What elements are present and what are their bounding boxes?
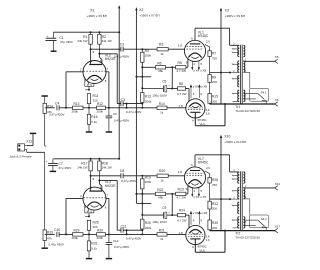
svg-text:Jack 6,3 Female: Jack 6,3 Female	[10, 154, 32, 158]
svg-text:R8: R8	[179, 82, 183, 86]
svg-text:S4.1: S4.1	[261, 90, 267, 94]
ground	[51, 50, 57, 52]
svg-text:R26: R26	[145, 221, 151, 225]
svg-text:24k 1W: 24k 1W	[102, 166, 112, 170]
svg-text:68k: 68k	[158, 69, 163, 73]
wire jack sleeve to ground	[27, 145, 33, 147]
wire jack tip	[25, 148, 27, 150]
svg-text:+390V к X10 БП: +390V к X10 БП	[224, 140, 246, 144]
svg-text:ТН-60-127/220-50: ТН-60-127/220-50	[235, 235, 260, 239]
svg-text:47k: 47k	[47, 237, 52, 241]
capacitor C7	[52, 159, 54, 163]
svg-text:68k: 68k	[158, 195, 163, 199]
node X1 bus	[118, 7, 120, 159]
ground	[42, 247, 48, 249]
svg-text:R24: R24	[179, 208, 185, 212]
svg-text:1k: 1k	[160, 178, 164, 182]
svg-text:47μ 450V: 47μ 450V	[58, 166, 71, 170]
svg-text:6Н23П: 6Н23П	[105, 57, 116, 61]
svg-text:X11: X11	[26, 139, 32, 143]
svg-text:R7: R7	[212, 51, 216, 55]
svg-text:+: +	[47, 34, 49, 38]
svg-text:C12: C12	[113, 239, 119, 243]
svg-text:200k: 200k	[72, 109, 79, 113]
svg-text:X2: X2	[139, 8, 143, 12]
svg-text:к X8: к X8	[201, 85, 207, 89]
svg-text:A: A	[191, 37, 193, 41]
svg-text:R13: R13	[145, 95, 151, 99]
svg-text:1,8: 1,8	[178, 44, 183, 48]
svg-text:C2: C2	[120, 42, 124, 46]
svg-text:R16: R16	[91, 115, 97, 119]
capacitor C10	[45, 233, 55, 235]
channel 1 graphics	[53, 28, 277, 132]
svg-text:6Н23П: 6Н23П	[105, 184, 116, 188]
svg-text:A: A	[192, 245, 194, 249]
svg-text:1k: 1k	[160, 237, 164, 241]
svg-text:C10: C10	[54, 228, 60, 232]
svg-text:R15: R15	[212, 94, 218, 98]
svg-text:C4: C4	[55, 101, 59, 105]
svg-text:3,6: 3,6	[206, 112, 210, 116]
svg-text:1,8: 1,8	[178, 170, 183, 174]
svg-text:R13: R13	[74, 102, 80, 106]
svg-text:к X5: к X5	[200, 195, 206, 199]
svg-text:R35: R35	[212, 221, 218, 225]
svg-text:1,8: 1,8	[178, 104, 183, 108]
svg-text:24k 1W: 24k 1W	[77, 39, 87, 43]
svg-text:0,47μ 450V: 0,47μ 450V	[114, 245, 129, 249]
svg-text:200k: 200k	[145, 226, 152, 230]
ground	[50, 170, 56, 172]
svg-text:X17: X17	[275, 225, 281, 229]
svg-text:VL3: VL3	[199, 122, 205, 126]
svg-text:4,7 2W: 4,7 2W	[177, 195, 187, 199]
svg-text:100μ 100V: 100μ 100V	[152, 94, 167, 98]
svg-text:750: 750	[212, 183, 217, 187]
svg-text:X10: X10	[224, 135, 230, 139]
svg-text:R20: R20	[159, 169, 165, 173]
svg-text:0,47μ 450V: 0,47μ 450V	[121, 179, 136, 183]
svg-text:4,7 2W: 4,7 2W	[177, 218, 187, 222]
svg-text:R9: R9	[212, 75, 216, 79]
svg-text:200: 200	[212, 207, 217, 211]
svg-text:750: 750	[212, 56, 217, 60]
svg-text:3,6: 3,6	[206, 238, 210, 242]
svg-text:A: A	[191, 163, 193, 167]
node X2 bus	[135, 9, 137, 204]
svg-text:+350V к X7 БП: +350V к X7 БП	[139, 13, 159, 17]
svg-text:R5: R5	[178, 61, 182, 65]
svg-text:R12: R12	[97, 102, 103, 106]
svg-text:R25: R25	[93, 221, 99, 225]
svg-text:200k: 200k	[145, 180, 152, 184]
svg-text:к X5: к X5	[200, 68, 206, 72]
svg-text:X12: X12	[275, 182, 281, 186]
svg-text:X1: X1	[90, 9, 94, 13]
svg-text:24k 1W: 24k 1W	[102, 39, 112, 43]
channel 1 labels	[72, 30, 279, 126]
svg-text:R19: R19	[145, 176, 151, 180]
svg-text:к X4: к X4	[193, 195, 199, 199]
svg-text:R32: R32	[212, 202, 218, 206]
svg-text:2,6: 2,6	[206, 39, 210, 43]
svg-text:к X6: к X6	[193, 85, 199, 89]
svg-text:C8: C8	[120, 169, 124, 173]
svg-text:S4.2: S4.2	[261, 217, 267, 221]
svg-text:ТН-60-127/220-50: ТН-60-127/220-50	[235, 109, 260, 113]
node X10 bus	[220, 136, 222, 231]
svg-text:R21: R21	[159, 229, 165, 233]
svg-text:R28: R28	[212, 178, 218, 182]
svg-text:R22: R22	[157, 188, 163, 192]
svg-text:+390V к X9 БП: +390V к X9 БП	[87, 14, 107, 18]
svg-text:к X4: к X4	[193, 68, 199, 72]
svg-text:R3: R3	[159, 42, 163, 46]
svg-text:200k: 200k	[145, 53, 152, 57]
channel 2 graphics	[53, 155, 277, 259]
svg-text:4,7 2W: 4,7 2W	[177, 92, 187, 96]
svg-text:R6: R6	[157, 62, 161, 66]
svg-text:200k: 200k	[97, 236, 104, 240]
svg-text:C11: C11	[121, 225, 127, 229]
svg-text:R31: R31	[91, 242, 97, 246]
svg-text:C6: C6	[113, 112, 117, 116]
svg-text:6П45С: 6П45С	[198, 161, 209, 165]
resistor R34	[44, 96, 46, 103]
ground	[42, 95, 48, 97]
svg-text:0,47μ 450V: 0,47μ 450V	[114, 118, 129, 122]
svg-text:1k: 1k	[160, 111, 164, 115]
svg-text:47μ 450V: 47μ 450V	[60, 40, 73, 44]
svg-text:4,7 2W: 4,7 2W	[177, 69, 187, 73]
svg-text:5,1k: 5,1k	[91, 120, 97, 124]
svg-text:200: 200	[212, 80, 217, 84]
capacitor C1	[53, 32, 55, 38]
svg-text:X5: X5	[275, 55, 279, 59]
svg-text:1,8: 1,8	[178, 231, 183, 235]
channel 2 labels	[72, 157, 281, 253]
svg-text:0,47μ 450V: 0,47μ 450V	[49, 242, 64, 246]
svg-text:1k: 1k	[160, 52, 164, 56]
svg-text:к X8: к X8	[201, 211, 207, 215]
resistor R33	[44, 152, 46, 230]
svg-text:0,47μ 450V: 0,47μ 450V	[126, 110, 141, 114]
svg-text:200k: 200k	[97, 109, 104, 113]
svg-text:0,47μ 450V: 0,47μ 450V	[114, 55, 129, 59]
capacitor C4	[45, 107, 55, 109]
svg-text:5,1k: 5,1k	[91, 247, 97, 251]
svg-text:к X6: к X6	[193, 211, 199, 215]
svg-text:R11: R11	[93, 94, 99, 98]
svg-text:200k: 200k	[72, 236, 79, 240]
svg-text:X3: X3	[225, 8, 229, 12]
svg-text:200: 200	[212, 226, 217, 230]
svg-text:C3: C3	[121, 98, 125, 102]
svg-text:100μ 100V: 100μ 100V	[152, 220, 167, 224]
svg-text:+: +	[46, 159, 48, 163]
svg-text:R14: R14	[159, 102, 165, 106]
svg-text:R30: R30	[97, 229, 103, 233]
svg-text:0,47μ 450V: 0,47μ 450V	[126, 237, 141, 241]
svg-text:C9: C9	[162, 206, 166, 210]
connector X11 jack	[18, 144, 25, 151]
svg-text:200: 200	[212, 99, 217, 103]
svg-text:A: A	[192, 119, 194, 123]
svg-text:6П45С: 6П45С	[198, 34, 209, 38]
svg-text:X6: X6	[275, 98, 279, 102]
svg-text:VL6: VL6	[199, 249, 205, 253]
svg-text:R4: R4	[145, 49, 149, 53]
svg-text:24k 1W: 24k 1W	[77, 166, 87, 170]
svg-text:+390V к X9 БП: +390V к X9 БП	[225, 14, 245, 18]
svg-text:C5: C5	[162, 80, 166, 84]
node X3 bus	[220, 9, 222, 104]
svg-text:R23: R23	[178, 188, 184, 192]
svg-text:200k: 200k	[145, 100, 152, 104]
svg-text:R29: R29	[74, 229, 80, 233]
svg-text:2,6: 2,6	[206, 166, 210, 170]
svg-text:0,47μ 450V: 0,47μ 450V	[49, 112, 64, 116]
